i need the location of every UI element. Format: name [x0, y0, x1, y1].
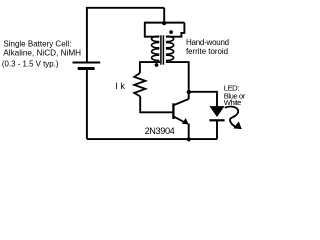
svg-text:Alkaline, NiCD, NiMH: Alkaline, NiCD, NiMH	[3, 48, 81, 57]
svg-text:2N3904: 2N3904	[145, 126, 175, 136]
wire emitter to bottom rail	[188, 124, 190, 140]
wire transformer top bar	[144, 22, 185, 24]
phase dot primary bottom	[155, 63, 159, 67]
svg-text:White: White	[224, 98, 241, 107]
LED D1 triangle	[209, 106, 224, 117]
LED D1 cathode bar	[209, 119, 224, 121]
wire left drop to primary top	[145, 23, 160, 37]
wire feed drop to transformer bar	[163, 8, 165, 23]
wire resistor to base	[140, 96, 172, 112]
svg-text:ferrite toroid: ferrite toroid	[186, 47, 228, 56]
battery B1 short plate	[78, 67, 95, 70]
wire LED branch	[189, 92, 217, 107]
wire bottom rail	[87, 138, 217, 140]
LED light squiggle arrow	[225, 107, 238, 128]
transistor Q1 base bar	[172, 103, 174, 119]
wire battery- down	[86, 70, 88, 140]
svg-text:Single Battery Cell:: Single Battery Cell:	[3, 39, 71, 48]
wire right drop to secondary top	[166, 23, 184, 37]
transformer T1 primary winding	[152, 36, 160, 60]
svg-text:(0.3 - 1.5 V typ.): (0.3 - 1.5 V typ.)	[2, 59, 59, 68]
junction dot emitter bottom rail	[187, 137, 191, 141]
transformer core line left	[160, 35, 162, 64]
LED squiggle arrowhead	[233, 122, 242, 130]
wire primary bottom to resistor	[140, 62, 160, 73]
transformer T1 secondary winding	[166, 36, 174, 60]
junction dot transformer feed	[162, 21, 166, 25]
transistor Q1 collector stroke	[174, 99, 189, 105]
wire secondary bottom to collector node	[166, 62, 189, 99]
transformer core line right	[162, 35, 164, 64]
svg-text:I k: I k	[115, 81, 125, 91]
battery B1 long plate	[73, 62, 101, 64]
phase dot secondary top	[169, 30, 173, 34]
transistor Q1 emitter arrowhead	[182, 118, 189, 125]
transistor Q1 emitter stroke	[174, 117, 187, 124]
wire LED cathode to bottom rail	[216, 121, 218, 139]
junction dot collector node	[187, 90, 191, 94]
resistor R1 1k zigzag	[134, 73, 145, 96]
wire battery+ up and top rail	[87, 8, 164, 62]
